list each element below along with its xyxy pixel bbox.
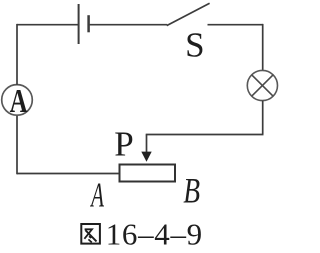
svg-text:16–4–9: 16–4–9 bbox=[106, 216, 203, 251]
wire lamp to bottom-right corner bbox=[262, 101, 264, 134]
wire battery to switch bbox=[90, 24, 168, 26]
switch S blade (open) bbox=[167, 3, 210, 25]
wire right vertical down to lamp bbox=[262, 24, 264, 71]
svg-text:P: P bbox=[114, 124, 133, 163]
battery cell long plate bbox=[78, 4, 80, 44]
wire rheostat to bottom-left corner bbox=[17, 173, 119, 175]
battery cell short plate bbox=[87, 15, 90, 32]
wire bottom-right horizontal to slider junction bbox=[146, 134, 264, 136]
lamp circle bbox=[247, 70, 277, 100]
caption character tu (figure) bbox=[81, 224, 100, 244]
svg-text:B: B bbox=[183, 170, 200, 210]
slider arrowhead bbox=[141, 152, 151, 162]
svg-text:A: A bbox=[10, 82, 28, 120]
wire top-left horizontal (left corner to battery) bbox=[17, 24, 78, 26]
svg-text:S: S bbox=[185, 26, 204, 65]
rheostat body bbox=[120, 165, 176, 182]
svg-text:A: A bbox=[90, 176, 105, 215]
wire switch to top-right corner bbox=[208, 24, 264, 26]
wire left vertical up to ammeter bbox=[16, 115, 18, 174]
ammeter circle bbox=[2, 85, 33, 116]
lamp cross lines bbox=[252, 75, 273, 96]
wire slider vertical drop bbox=[146, 135, 148, 153]
wire ammeter up to top-left corner bbox=[16, 24, 18, 85]
